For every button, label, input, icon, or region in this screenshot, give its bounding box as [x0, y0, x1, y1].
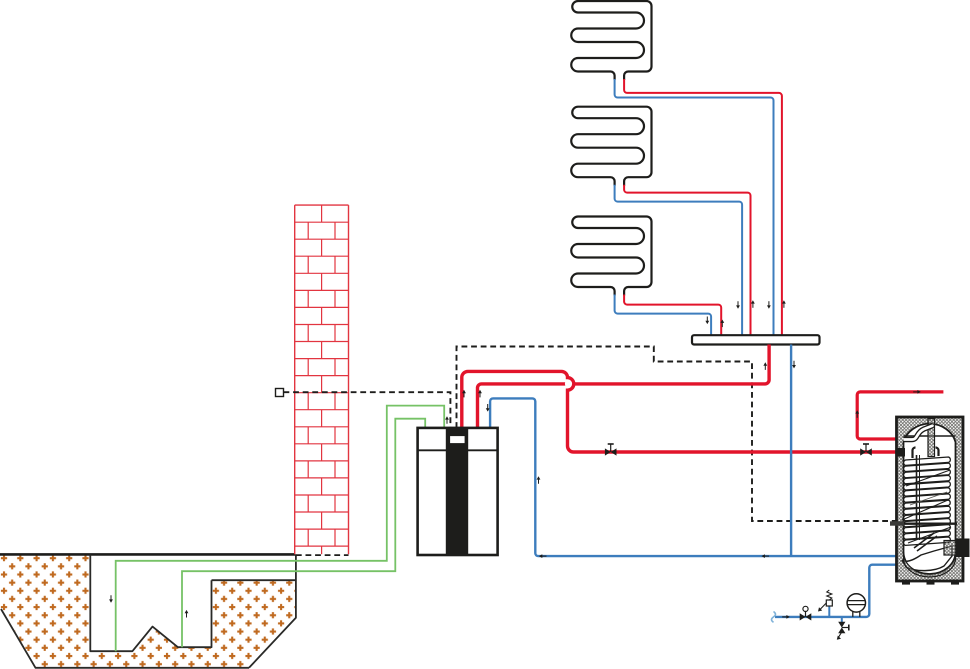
heating flow main (manifold to heat pump, red): [478, 345, 770, 428]
heating coil 3 (lower floor circuit): [571, 217, 651, 296]
flow arrows above manifold: [706, 317, 708, 322]
ground loop pipe A (green): [116, 406, 445, 652]
cold return main (tank to heat pump, blue): [490, 398, 896, 556]
coil2 supply pipe (blue): [615, 185, 743, 336]
manifold return drop (blue): [790, 345, 792, 557]
right soil block top edge: [212, 579, 296, 581]
shut-off valve V2 at tank: [860, 448, 866, 455]
ground surface line: [0, 553, 296, 556]
coil3 return pipe (red): [624, 295, 721, 336]
hot supply main to tank (red, with crossing hop): [565, 379, 574, 388]
outdoor sensor: [276, 389, 284, 397]
ground soil cross-section with excavation trench: [0, 554, 296, 667]
main pipe arrows: [764, 365, 766, 370]
coil2 return pipe (red): [624, 185, 750, 336]
brick chimney: [295, 205, 349, 554]
tank DHW outlet pipe (red): [857, 392, 943, 439]
heating coil 2 (middle floor circuit): [571, 107, 651, 186]
shut-off valve V1: [605, 448, 611, 455]
coil1 supply pipe (blue): [615, 79, 774, 335]
heating manifold / distributor: [692, 335, 820, 344]
cold water safety group: [800, 613, 806, 620]
coil3 supply pipe (blue): [615, 295, 712, 336]
ground right boundary: [249, 554, 296, 667]
hot water storage tank: [897, 417, 964, 581]
sensor dashed line D2: [284, 392, 451, 428]
chimney base dashed line: [296, 554, 349, 556]
cold water inlet line (blue): [775, 565, 897, 617]
trench outline: [90, 554, 211, 651]
controller dashed line D1 (heat pump to tank sensor): [457, 347, 897, 522]
ground loop arrows: [110, 595, 112, 600]
ground loop pipe B (green): [182, 419, 425, 648]
ground bottom edge: [1, 609, 249, 668]
heating coil 1 (top floor circuit): [571, 1, 651, 80]
coil1 return pipe (red): [624, 79, 782, 335]
heat pump unit: [418, 428, 498, 555]
